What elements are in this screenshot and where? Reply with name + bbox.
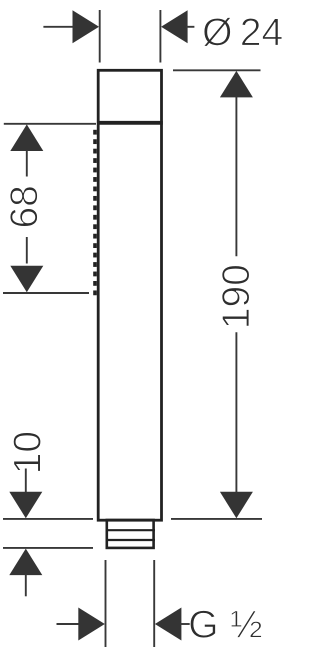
dim 190 bottom extension line (171, 518, 262, 520)
dim 10 up arrow (9, 549, 42, 576)
dim 190 line lower segment (235, 332, 237, 493)
connector thread line 1 (106, 529, 156, 531)
dim Ø24 extension line left (99, 10, 101, 63)
dim O24 label value 24 (242, 18, 282, 45)
connector thread line 2 (106, 539, 156, 541)
dim G1/2 label half fraction (231, 611, 261, 638)
spray nozzle dashes (93, 130, 97, 295)
dim 10 leader line (25, 469, 27, 494)
dim G1/2 left arrow (78, 608, 105, 641)
dim 10 label (13, 432, 41, 471)
dim Ø24 extension line right (159, 10, 161, 63)
dim 190 line upper segment (235, 97, 237, 257)
dim G1/2 right tail (180, 623, 193, 625)
dim 10 down arrow (9, 492, 42, 519)
dim 68 line upper segment (26, 150, 28, 177)
dim G1/2 label G (190, 610, 215, 638)
dim G1/2 extension line left (105, 560, 107, 647)
dim 190 top extension line (173, 69, 261, 71)
dim 10 top extension line (3, 518, 93, 520)
dim Ø24 right tail (186, 26, 194, 28)
dim 68 down arrow (10, 266, 43, 293)
dim Ø24 right arrow (161, 10, 188, 43)
dim 68 up arrow (10, 124, 43, 151)
dim Ø24 left arrow (73, 10, 100, 43)
dim G1/2 right arrow (155, 608, 182, 641)
dim 68 bottom extension line (3, 292, 89, 294)
dim 68 top extension line (4, 123, 96, 125)
head/handle divider line (97, 121, 163, 125)
dim 68 label (10, 187, 38, 227)
dim 68 line lower segment (26, 237, 28, 264)
dim 190 up arrow (220, 71, 253, 98)
dim Ø24 left tail (43, 26, 73, 28)
threaded connector outline (107, 520, 154, 548)
dim 10 lower tail (25, 574, 27, 596)
dim G1/2 left tail (57, 623, 80, 625)
dim 190 label (222, 266, 250, 327)
dim 190 down arrow (220, 492, 253, 519)
dim 10 bottom extension line (3, 547, 93, 549)
dim O24 label diameter symbol (203, 17, 231, 46)
dim G1/2 extension line right (153, 560, 155, 647)
shower body outline (98, 70, 161, 520)
